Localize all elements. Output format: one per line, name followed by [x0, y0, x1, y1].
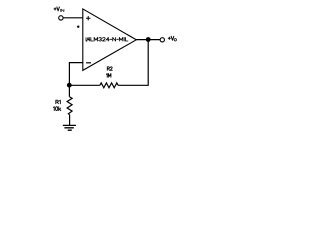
ground	[63, 125, 76, 130]
wire output	[136, 39, 160, 41]
label 1/4 LM324-N-MIL	[86, 37, 90, 41]
junction output node	[146, 37, 151, 42]
wire to ground	[69, 115, 71, 125]
resistor R1	[67, 97, 72, 115]
junction feedback node	[67, 83, 72, 88]
wire feedback right	[118, 39, 148, 85]
label 1M	[106, 74, 111, 78]
resistor R2	[100, 83, 118, 88]
label +VO	[168, 36, 174, 40]
wire noninverting input	[64, 17, 83, 19]
terminal +VIN	[59, 16, 63, 20]
node dot near noninverting input	[77, 26, 79, 28]
label 10k	[53, 107, 60, 111]
label R1	[56, 100, 61, 104]
wire inverting input branch	[69, 63, 82, 97]
label R2	[107, 67, 112, 71]
wire feedback left	[69, 84, 100, 86]
label +VIN	[54, 7, 59, 11]
minus input pin symbol	[86, 62, 91, 64]
op-amp U1	[83, 9, 137, 71]
terminal +VO	[160, 38, 164, 42]
plus input pin symbol	[86, 16, 90, 20]
